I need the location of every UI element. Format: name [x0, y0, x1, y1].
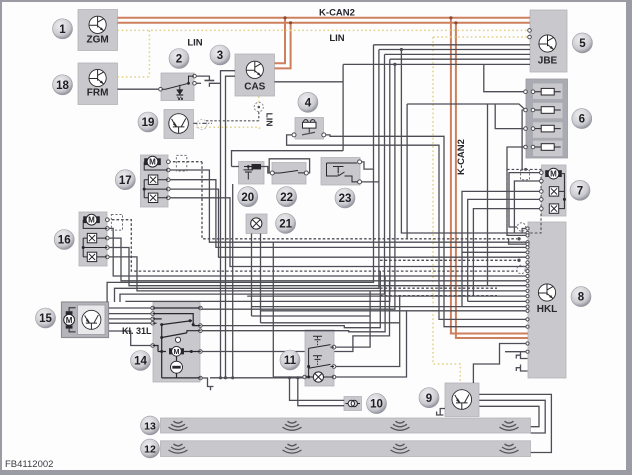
item 16 dashed loop wire	[107, 220, 517, 271]
item 17 pin4 wire	[168, 189, 528, 257]
motor 7 pin2 wire	[514, 181, 541, 233]
antenna amp 9 riser to HKL	[473, 344, 528, 384]
band dashed row B	[380, 259, 517, 261]
row y310.8 left part	[261, 310, 407, 312]
junction dots ground row	[219, 376, 222, 379]
wiper 14 right pin wire y351.5 (passes behind switch 11)	[201, 281, 390, 352]
item ball 18	[53, 75, 73, 95]
motor 7 pin1 wire	[509, 173, 541, 227]
item 16 pin3 wire	[107, 238, 528, 281]
item ball 17	[115, 170, 135, 190]
wiper 14 internals	[153, 308, 201, 378]
svg-text:K-CAN2: K-CAN2	[456, 139, 467, 175]
LIN coupling dashed circle below CAS	[254, 102, 263, 111]
HKL stub y351.7	[505, 351, 528, 353]
antenna strip item 13	[161, 418, 531, 433]
fuses in box 6	[535, 88, 561, 95]
filter 20 bottom vertical	[232, 184, 234, 378]
fuse row2 feed wire with diagonal	[407, 104, 525, 110]
lamp 21 pin wire right	[260, 234, 262, 323]
contact bar and wire joining bus	[209, 83, 220, 87]
vertical bus wire B1c	[120, 54, 385, 302]
motor unit 7 connector pins	[540, 171, 544, 175]
motor 17 icons	[144, 156, 161, 167]
cluster 15 internals	[64, 308, 101, 332]
svg-text:16: 16	[58, 235, 71, 247]
vertical from fuse row2 feed	[406, 104, 408, 239]
switch cluster box item 11	[305, 330, 334, 386]
fuse cell 4	[533, 141, 563, 157]
item ball 13	[141, 416, 160, 435]
vertical bus wire B1e	[200, 64, 395, 309]
item 16 pin4 wire	[107, 248, 528, 286]
heater 4 left pin loop wire to HKL	[287, 135, 528, 320]
wire relay 2 top contact	[194, 76, 209, 80]
fuse cell 1	[533, 84, 563, 100]
item 17 pin2 wire	[168, 170, 528, 242]
svg-text:FB4112002: FB4112002	[5, 459, 53, 470]
antenna amp 9 wire 3 to strip 13	[479, 406, 539, 426]
antenna amp 9 wire 1 to strip 12	[479, 394, 551, 452]
antenna amplifier box item 9	[445, 383, 479, 417]
svg-text:10: 10	[370, 399, 383, 411]
item ball 12	[141, 439, 160, 458]
K-CAN2 bus orange line upper	[118, 17, 531, 19]
JBE wire 4	[390, 58, 530, 60]
svg-text:7: 7	[577, 185, 583, 197]
row y316	[252, 315, 371, 317]
svg-text:9: 9	[426, 393, 432, 405]
sensor box item 19	[164, 110, 194, 139]
K-CAN2 junction dots	[283, 16, 457, 24]
dashed row end dots	[517, 237, 520, 240]
svg-text:20: 20	[241, 192, 254, 204]
switch 11 lamp pin wire to HKL	[334, 311, 528, 377]
cluster 15 to wiper 14 wire 3	[109, 318, 153, 320]
band dashed wire from 17 pin1	[202, 162, 517, 239]
dashed link from coupling circle down	[258, 112, 260, 121]
cluster 15 to wiper 14 wire 2	[109, 313, 153, 315]
vertical bus wire B1b	[115, 50, 379, 303]
svg-text:M: M	[66, 316, 73, 325]
K-CAN2 branch to CAS line 1	[275, 18, 286, 63]
JBE LIN connector pins	[528, 29, 532, 33]
wiper 14 right pin wire y330.7	[201, 276, 385, 332]
lamp 21 icon	[251, 218, 262, 229]
svg-text:JBE: JBE	[538, 56, 558, 67]
JBE wire 3	[385, 53, 531, 55]
LIN drop to FRM level	[148, 30, 150, 77]
LIN stub below CAS	[258, 97, 260, 103]
fuse row3 wire down to HKL	[495, 104, 525, 129]
antenna waves strip 12	[169, 444, 188, 453]
K-CAN2 bus orange line lower	[118, 22, 531, 24]
item 16 pin5 wire	[107, 257, 528, 291]
motor 7 pin4 wire joining row	[468, 199, 542, 301]
dashed connector small box 7	[521, 170, 530, 180]
dashed connector small box 17	[176, 155, 186, 171]
item ball 20	[238, 187, 258, 207]
svg-text:14: 14	[134, 356, 147, 368]
item ball 19	[138, 112, 158, 132]
cluster 15 to wiper 14 wire 1	[109, 307, 153, 309]
wiper 14 left connector pins	[151, 306, 155, 310]
window lifter motor box item 17	[141, 155, 169, 207]
heater 4 right pin wire to HKL	[324, 135, 528, 327]
heater 4 icon	[303, 120, 317, 129]
right riser 487.5	[487, 104, 489, 286]
filter 20 internals	[244, 164, 262, 180]
motor 17 internal links	[144, 162, 168, 198]
svg-text:17: 17	[119, 175, 132, 187]
svg-text:12: 12	[144, 444, 156, 456]
svg-text:4: 4	[305, 97, 312, 109]
control unit ZGM box (item 1)	[78, 10, 118, 51]
row y322.8	[261, 322, 400, 324]
svg-text:5: 5	[579, 38, 586, 50]
dashed circle HKL left 1	[517, 223, 525, 231]
switch 11 internals	[305, 336, 334, 382]
wiper 14 right connector pins	[199, 306, 203, 310]
item 17 pin3 wire	[168, 180, 528, 248]
svg-text:LIN: LIN	[187, 38, 202, 49]
instrument cluster box item 15	[62, 302, 109, 338]
fuse row1 wire and riser	[484, 64, 526, 91]
wire filter 20 to switch 22	[261, 167, 273, 174]
window lifter motor box item 16	[79, 212, 107, 266]
antenna waves strip 13	[169, 421, 188, 430]
fuse cell 2	[533, 103, 563, 119]
FRM icon	[89, 69, 106, 86]
svg-text:FRM: FRM	[87, 88, 109, 99]
svg-text:11: 11	[284, 355, 297, 367]
svg-text:2: 2	[176, 54, 182, 66]
diversity 10 wire lower	[298, 378, 344, 406]
item 17 pin5 wire	[168, 198, 528, 267]
right riser 470.7 lower part	[462, 251, 528, 253]
ZGM icon	[89, 16, 106, 33]
motor 7 pin5 wire down to HKL row	[473, 209, 541, 297]
svg-text:LIN: LIN	[265, 113, 275, 127]
wiper 14 ground step	[201, 378, 214, 390]
dashed wire to item 19	[206, 120, 259, 122]
item ball 3	[210, 45, 230, 65]
item ball 22	[277, 187, 297, 207]
bridge wire over switch 22	[269, 159, 309, 173]
item 16 pin2 wire	[107, 228, 528, 276]
switch 11 pin2 wire to HKL	[247, 296, 528, 366]
control unit CAS box (item 3)	[235, 54, 275, 96]
motor 16 internal links	[83, 220, 107, 257]
sensor 23 connector pins	[358, 160, 362, 164]
heater 4 internal stem	[308, 128, 310, 133]
JBE wire 2	[379, 49, 530, 51]
svg-text:KI. 31L: KI. 31L	[122, 326, 152, 336]
cluster 15 lower wire to 14	[109, 331, 153, 346]
item ball 6	[572, 109, 592, 129]
relay 2 internals: switch and diode	[162, 76, 194, 100]
svg-text:1: 1	[59, 24, 66, 36]
item ball 4	[298, 92, 318, 112]
motor 16 icons	[83, 214, 100, 225]
switch box item 22	[272, 163, 306, 185]
svg-text:21: 21	[279, 219, 292, 231]
antenna strip item 12	[161, 441, 531, 457]
switch 11 connector pins	[332, 345, 336, 349]
item ball 7	[570, 180, 590, 200]
lamp 21 pin wire left	[251, 234, 253, 317]
JBE wire 1	[374, 44, 531, 46]
LIN long vertical to item 9	[433, 37, 460, 383]
svg-text:8: 8	[578, 292, 585, 304]
relay 2 connector pins	[193, 74, 197, 78]
junction dot on dashed top	[524, 168, 527, 171]
heater 4 switch contact	[302, 132, 315, 135]
sensor box item 23	[321, 158, 360, 186]
svg-text:23: 23	[339, 193, 352, 205]
motor unit box item 7	[542, 165, 567, 216]
wire into filter 20 left pin	[232, 166, 239, 168]
fuse row2 straight wire down to HKL	[522, 110, 528, 233]
diversity 10 wire upper	[290, 378, 345, 401]
item ball 14	[131, 351, 151, 371]
heater box item 4	[295, 118, 324, 140]
right riser 461	[252, 306, 529, 308]
lamp box item 21	[246, 214, 267, 234]
item ball 11	[280, 350, 300, 370]
antenna amp 9 ground step	[437, 409, 445, 416]
filter box item 20	[239, 162, 265, 185]
wire relay 2 lower pin	[194, 82, 201, 84]
item ball 15	[36, 308, 56, 328]
item 17 pin1 dashed start	[168, 161, 202, 163]
CAS icon	[246, 61, 263, 78]
item ball 5	[572, 33, 592, 53]
HKL ground step pins	[516, 352, 527, 359]
JBE icon	[539, 35, 556, 52]
vertical wire x273.3	[272, 242, 274, 377]
diversity element box item 10	[344, 397, 362, 411]
svg-text:22: 22	[280, 192, 293, 204]
LIN bus yellow dotted ZGM to JBE	[118, 29, 530, 31]
band dashed row C	[380, 287, 497, 289]
svg-text:19: 19	[142, 117, 155, 129]
LIN wire from FRM	[118, 76, 150, 78]
switch 22 contact	[274, 171, 305, 174]
switch 22 connector pins	[270, 171, 274, 175]
svg-text:18: 18	[56, 80, 69, 92]
dashed connector rect item 7	[507, 169, 541, 233]
svg-text:CAS: CAS	[244, 82, 265, 93]
fuse row4 wire down to HKL	[507, 147, 528, 235]
yellow dotted wire to item 19 area	[197, 127, 260, 131]
sensor 23 internals	[327, 163, 359, 182]
motor 7 right link	[559, 174, 565, 209]
svg-text:15: 15	[39, 313, 52, 325]
wiper unit box item 14	[153, 302, 200, 382]
svg-text:13: 13	[144, 421, 156, 433]
motor 16 connector pins	[106, 218, 110, 222]
CAS left pin wire upper, long vertical down	[221, 71, 236, 378]
svg-text:LIN: LIN	[329, 33, 344, 44]
item ball 10	[367, 394, 387, 414]
switch 11 left wire	[273, 376, 304, 378]
item ball 16	[54, 230, 74, 250]
antenna amp 9 wire 2 to strip 13	[479, 400, 545, 433]
relay box item 2	[161, 73, 194, 101]
control unit JBE box (item 5)	[530, 10, 567, 72]
riser x343	[342, 64, 344, 150]
dashed circle HKL left 2	[517, 265, 525, 273]
CAS right output joining riser	[275, 81, 344, 83]
wiper 14 right pin wire y325.6	[201, 271, 380, 328]
ground row wire 14 to 11	[210, 377, 305, 379]
item ball 21	[276, 213, 296, 233]
svg-text:K-CAN2: K-CAN2	[319, 8, 355, 19]
right riser 465.8	[468, 300, 528, 302]
HKL connector pins	[526, 227, 529, 230]
vertical bus wire B1a	[107, 45, 373, 302]
dashed connector small box 16	[111, 215, 122, 231]
antenna amp 9 icon	[452, 390, 472, 410]
item ball 23	[335, 188, 355, 208]
dash-dot wire from item 19	[193, 122, 212, 124]
heater 4 connector pins	[292, 133, 296, 137]
item ball 8	[571, 287, 591, 307]
band dashed row D	[380, 295, 497, 297]
LIN second line into JBE	[433, 36, 529, 38]
CAS left pin wire lower, long vertical down	[226, 76, 236, 378]
fuse box 6 connector pins	[524, 90, 528, 94]
K-CAN2 branch to HKL line 1	[451, 18, 528, 334]
vertical bus wire B1d	[126, 59, 390, 302]
wire FRM to relay 2	[118, 88, 161, 90]
item ball 2	[169, 49, 189, 69]
fuse carrier box item 6 outer	[526, 79, 568, 158]
svg-text:HKL: HKL	[537, 304, 558, 315]
cluster 15 to wiper 14 wire 4	[109, 322, 153, 324]
vertical bus wire B1f	[401, 50, 528, 234]
svg-text:6: 6	[579, 114, 585, 126]
item ball 1	[53, 19, 73, 39]
riser to filter 20	[232, 151, 344, 167]
motor 7 pin3 wire down to HKL row	[462, 191, 541, 306]
motor 7 icons	[545, 168, 562, 179]
JBE wire 5	[343, 63, 530, 65]
svg-text:3: 3	[217, 50, 223, 62]
K-CAN2 branch to HKL line 2	[456, 23, 528, 338]
motor 17 connector pins	[167, 160, 171, 164]
HKL icon	[538, 284, 555, 301]
sensor 23 top pin wire	[360, 162, 374, 169]
diversity 10 icon	[346, 400, 361, 406]
item ball 9	[419, 388, 439, 408]
fuse cell 3	[533, 122, 563, 138]
sensor 23 bottom pin wire	[360, 181, 379, 183]
coupling dashed circle at item 19	[197, 120, 207, 130]
control unit FRM box (item 18)	[78, 63, 118, 105]
svg-text:ZGM: ZGM	[86, 35, 108, 46]
control unit HKL box (item 8)	[528, 222, 566, 378]
K-CAN2 branch to CAS line 2	[275, 23, 291, 69]
sensor 19 icon	[169, 114, 189, 134]
right riser 508.6	[509, 239, 528, 244]
switch 11 pin1 wire	[334, 291, 370, 347]
junction dots B1	[393, 63, 396, 66]
